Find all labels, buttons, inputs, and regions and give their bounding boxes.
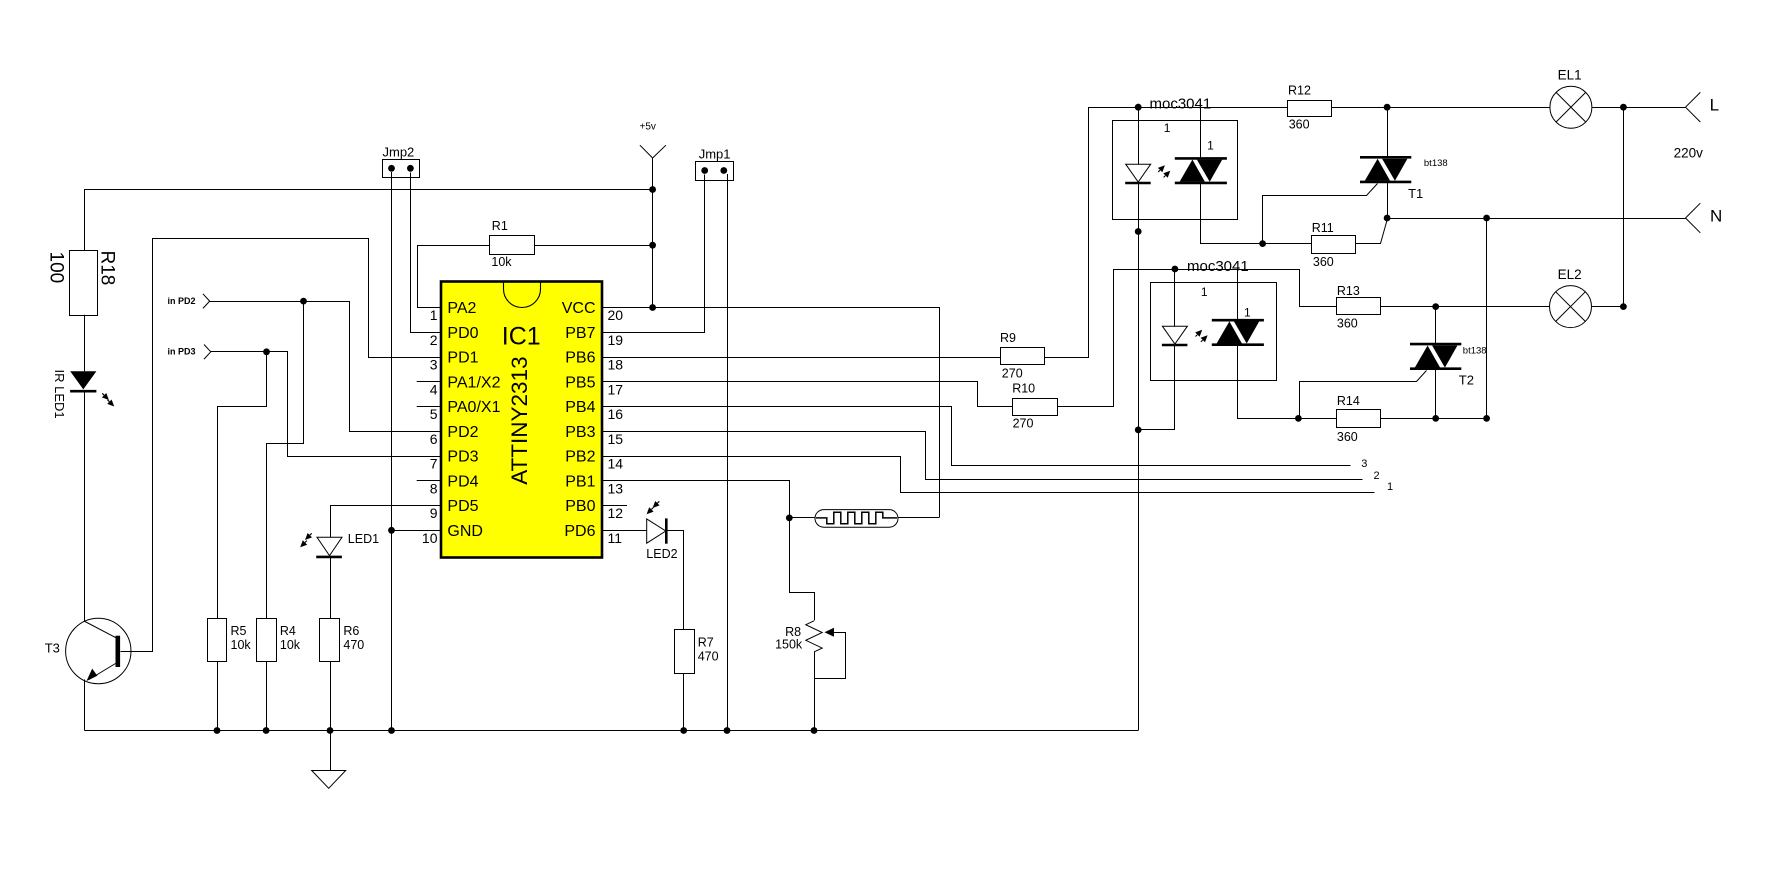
- wire PB2 net 1: [603, 457, 1375, 493]
- svg-text:17: 17: [608, 381, 624, 397]
- ground symbol: [330, 731, 332, 771]
- svg-text:in PD2: in PD2: [168, 296, 196, 306]
- N line: [1387, 218, 1685, 220]
- node in PD3: [204, 345, 211, 352]
- wire R12 to EL1: [1332, 107, 1550, 109]
- svg-text:IC1: IC1: [502, 323, 541, 351]
- wire OK1 LED cathode to ground rail: [1138, 183, 1140, 731]
- svg-text:R13: R13: [1337, 284, 1360, 298]
- svg-text:360: 360: [1337, 317, 1358, 331]
- wire in PD2 branch to R4: [267, 302, 304, 619]
- svg-text:PD0: PD0: [447, 325, 478, 342]
- svg-text:11: 11: [608, 530, 623, 546]
- svg-text:R12: R12: [1288, 84, 1311, 98]
- IR LED1 emission arrows: [102, 393, 104, 395]
- OK2 triac: [1237, 269, 1239, 320]
- wire R5 bottom: [217, 661, 219, 730]
- svg-text:2: 2: [430, 332, 438, 348]
- svg-text:T1: T1: [1408, 186, 1423, 201]
- svg-text:13: 13: [608, 480, 624, 496]
- svg-text:GND: GND: [447, 523, 483, 540]
- svg-text:1: 1: [1164, 121, 1171, 135]
- pin stub 8 PD4: [417, 480, 441, 482]
- wire R10 to moc3041 #2 line: [1058, 270, 1337, 407]
- svg-text:EL1: EL1: [1558, 68, 1582, 83]
- svg-text:LED2: LED2: [646, 547, 677, 561]
- svg-text:19: 19: [608, 332, 624, 348]
- svg-text:Jmp2: Jmp2: [383, 145, 415, 160]
- resistor R5: [208, 619, 227, 662]
- svg-text:ATTINY2313: ATTINY2313: [507, 356, 532, 484]
- wire gate T2: [1299, 371, 1427, 419]
- LED1 emission arrows: [310, 533, 312, 535]
- svg-text:360: 360: [1289, 118, 1310, 132]
- svg-text:T2: T2: [1459, 373, 1474, 388]
- diode IR LED1: [70, 371, 96, 389]
- wire R11 to N line: [1356, 219, 1388, 244]
- wire R9 to moc3041 #1 line: [1045, 108, 1288, 358]
- svg-text:100: 100: [46, 252, 67, 284]
- R8 wiper: [825, 628, 835, 637]
- svg-text:PB5: PB5: [565, 374, 595, 391]
- LED2 emission arrows: [657, 501, 659, 503]
- svg-text:150k: 150k: [775, 638, 803, 652]
- wire T3 base riser to PD1: [121, 239, 442, 652]
- svg-text:LED1: LED1: [348, 532, 379, 546]
- svg-text:PD4: PD4: [447, 473, 478, 490]
- resistor R13: [1337, 298, 1381, 315]
- svg-text:1: 1: [1201, 285, 1208, 299]
- svg-text:3: 3: [430, 357, 438, 373]
- OK2 LED: [1174, 269, 1176, 326]
- svg-text:VCC: VCC: [562, 300, 596, 317]
- svg-text:R8: R8: [785, 625, 801, 639]
- svg-text:PD3: PD3: [447, 449, 478, 466]
- svg-text:10: 10: [422, 530, 438, 546]
- wire in PD3 branch to R5: [218, 352, 267, 619]
- svg-text:T3: T3: [45, 641, 60, 656]
- sensor S1 left lead: [789, 517, 815, 519]
- wire VCC to sensor riser: [603, 308, 940, 518]
- svg-text:R10: R10: [1012, 382, 1035, 396]
- svg-text:bt138: bt138: [1424, 158, 1448, 169]
- svg-text:1: 1: [1387, 481, 1393, 493]
- wire R18 top lead: [84, 190, 86, 251]
- resistor R10: [1013, 399, 1058, 416]
- wire EL2 right: [1592, 306, 1624, 308]
- svg-text:270: 270: [1013, 417, 1034, 431]
- sensor S1 right lead: [898, 517, 939, 519]
- IC U1 ATTINY2313: [441, 282, 602, 558]
- svg-text:8: 8: [430, 480, 438, 496]
- svg-text:10k: 10k: [280, 638, 301, 652]
- svg-text:R7: R7: [698, 636, 714, 650]
- resistor R11: [1263, 243, 1312, 245]
- svg-text:+5v: +5v: [640, 122, 656, 133]
- svg-text:R9: R9: [1000, 331, 1016, 345]
- pin stub 4 PA1/X2: [417, 381, 441, 383]
- triac T2 bt138: [1435, 307, 1437, 346]
- wire R14 right to N drop: [1381, 418, 1487, 420]
- svg-text:PD5: PD5: [447, 498, 478, 515]
- wire PB5 to R10: [603, 382, 1013, 407]
- svg-text:PB4: PB4: [565, 399, 595, 416]
- wire PD6 to LED2: [602, 530, 647, 532]
- wire PA2 to R1: [418, 246, 490, 308]
- svg-text:R1: R1: [492, 219, 508, 233]
- wire R7 bottom: [683, 674, 685, 731]
- svg-text:15: 15: [608, 431, 624, 447]
- wire PB6 to R9: [602, 357, 1001, 359]
- svg-text:20: 20: [608, 307, 624, 323]
- wire LED1 to R6: [330, 557, 332, 618]
- terminal N: [1686, 203, 1701, 218]
- svg-text:EL2: EL2: [1558, 267, 1582, 282]
- resistor R4: [257, 619, 277, 662]
- svg-text:moc3041: moc3041: [1187, 258, 1249, 275]
- svg-text:PB6: PB6: [565, 350, 595, 367]
- ground rail: [85, 730, 1139, 732]
- svg-text:PA1/X2: PA1/X2: [447, 374, 500, 391]
- svg-text:10k: 10k: [491, 255, 512, 269]
- wire OK1 triac out to R11 node: [1201, 183, 1263, 244]
- svg-text:L: L: [1710, 96, 1719, 115]
- svg-text:4: 4: [430, 381, 438, 397]
- svg-text:18: 18: [608, 357, 624, 373]
- transistor T3: [66, 618, 131, 683]
- wire gate T1: [1263, 184, 1378, 244]
- svg-text:470: 470: [698, 650, 719, 664]
- wire R1 to +5v line: [535, 245, 653, 247]
- wire in PD2 to pin 6: [210, 302, 442, 432]
- svg-text:R18: R18: [97, 251, 118, 286]
- resistor R9: [1001, 348, 1045, 365]
- wire T3 emitter to ground rail: [84, 680, 86, 731]
- resistor R7: [675, 630, 695, 674]
- svg-text:PB3: PB3: [565, 424, 595, 441]
- wire IR LED1 cathode to T3 collector: [84, 391, 86, 621]
- wire EL1 to L: [1592, 107, 1686, 109]
- svg-text:PA2: PA2: [447, 300, 476, 317]
- svg-text:16: 16: [608, 406, 624, 422]
- wire R6 bottom: [330, 661, 332, 730]
- svg-text:R5: R5: [231, 624, 247, 638]
- svg-text:Jmp1: Jmp1: [699, 147, 731, 162]
- potentiometer R8: [806, 621, 822, 652]
- svg-text:1: 1: [1207, 139, 1214, 153]
- svg-text:PD6: PD6: [564, 523, 595, 540]
- wire N to R14: [1486, 218, 1488, 418]
- wire R18 bottom to IR LED1: [84, 315, 86, 372]
- pin stub 12 PB0: [602, 505, 627, 507]
- wire in PD3 to pin 7: [211, 352, 442, 457]
- wire GND pin to Jmp2 line: [392, 530, 442, 532]
- svg-text:bt138: bt138: [1463, 345, 1487, 356]
- LED LED1: [317, 537, 342, 555]
- wire OK2 triac out to R14 node: [1238, 345, 1299, 419]
- wire PB1 to sensor node: [603, 481, 815, 621]
- svg-text:N: N: [1710, 207, 1722, 226]
- svg-text:PD2: PD2: [447, 424, 478, 441]
- wire EL lamps common: [1623, 107, 1625, 306]
- svg-text:3: 3: [1361, 458, 1367, 470]
- wire PB4 net 3: [603, 407, 1351, 466]
- svg-text:9: 9: [430, 505, 438, 521]
- wire +5v rail to R18 top: [84, 189, 653, 191]
- svg-text:R4: R4: [280, 624, 296, 638]
- LED LED2: [647, 519, 666, 543]
- OK1 LED: [1138, 104, 1140, 164]
- svg-text:PB1: PB1: [565, 473, 595, 490]
- triac T1 bt138: [1387, 107, 1389, 158]
- svg-text:PB2: PB2: [565, 449, 595, 466]
- wire Jmp2 left pin to ground rail: [391, 172, 393, 731]
- terminal L: [1686, 92, 1701, 107]
- resistor R14: [1298, 418, 1337, 420]
- svg-text:12: 12: [608, 505, 624, 521]
- svg-text:1: 1: [430, 307, 438, 323]
- svg-text:470: 470: [343, 638, 364, 652]
- svg-text:R11: R11: [1312, 221, 1334, 235]
- svg-text:1: 1: [1244, 305, 1251, 319]
- resistor R18: [70, 251, 98, 316]
- svg-text:220v: 220v: [1674, 146, 1704, 161]
- wire R13 to EL2: [1381, 306, 1550, 308]
- node in PD2: [203, 294, 210, 301]
- svg-text:R14: R14: [1337, 394, 1360, 408]
- svg-text:PB0: PB0: [565, 498, 595, 515]
- svg-text:IR LED1: IR LED1: [52, 370, 67, 419]
- svg-text:6: 6: [430, 431, 438, 447]
- pin stub 5 PA0/X1: [417, 406, 441, 408]
- wire Jmp1 left pin to PB7: [603, 175, 705, 333]
- svg-text:PB7: PB7: [565, 325, 595, 342]
- wire OK2 LED cathode to ground line: [1139, 346, 1175, 430]
- wire PD5 to LED1: [331, 506, 442, 538]
- sensor S1 body: [815, 510, 898, 528]
- wire LED2 to R7: [667, 531, 684, 630]
- resistor R1: [490, 236, 535, 255]
- svg-text:270: 270: [1002, 367, 1023, 381]
- OK1 triac: [1200, 107, 1202, 158]
- svg-text:10k: 10k: [231, 638, 252, 652]
- OK1 LED arrows: [1158, 170, 1160, 172]
- svg-text:PD1: PD1: [447, 350, 478, 367]
- svg-text:360: 360: [1313, 255, 1334, 269]
- wire Jmp1 right pin to ground rail: [727, 174, 729, 731]
- svg-text:in PD3: in PD3: [168, 347, 196, 357]
- svg-text:360: 360: [1337, 430, 1358, 444]
- wire Jmp2 right pin to PD0: [411, 173, 442, 333]
- wire R8 bottom: [814, 652, 816, 731]
- svg-text:R6: R6: [343, 624, 359, 638]
- svg-text:moc3041: moc3041: [1150, 96, 1212, 113]
- svg-text:14: 14: [608, 456, 624, 472]
- OK2 LED arrows: [1196, 335, 1198, 337]
- resistor R6: [320, 619, 340, 662]
- wire R4 bottom: [266, 661, 268, 730]
- resistor R12: [1288, 101, 1332, 117]
- svg-text:2: 2: [1374, 470, 1380, 482]
- svg-text:PA0/X1: PA0/X1: [447, 399, 500, 416]
- svg-text:5: 5: [430, 406, 438, 422]
- wire PB3 net 2: [603, 432, 1363, 480]
- svg-text:7: 7: [430, 456, 438, 472]
